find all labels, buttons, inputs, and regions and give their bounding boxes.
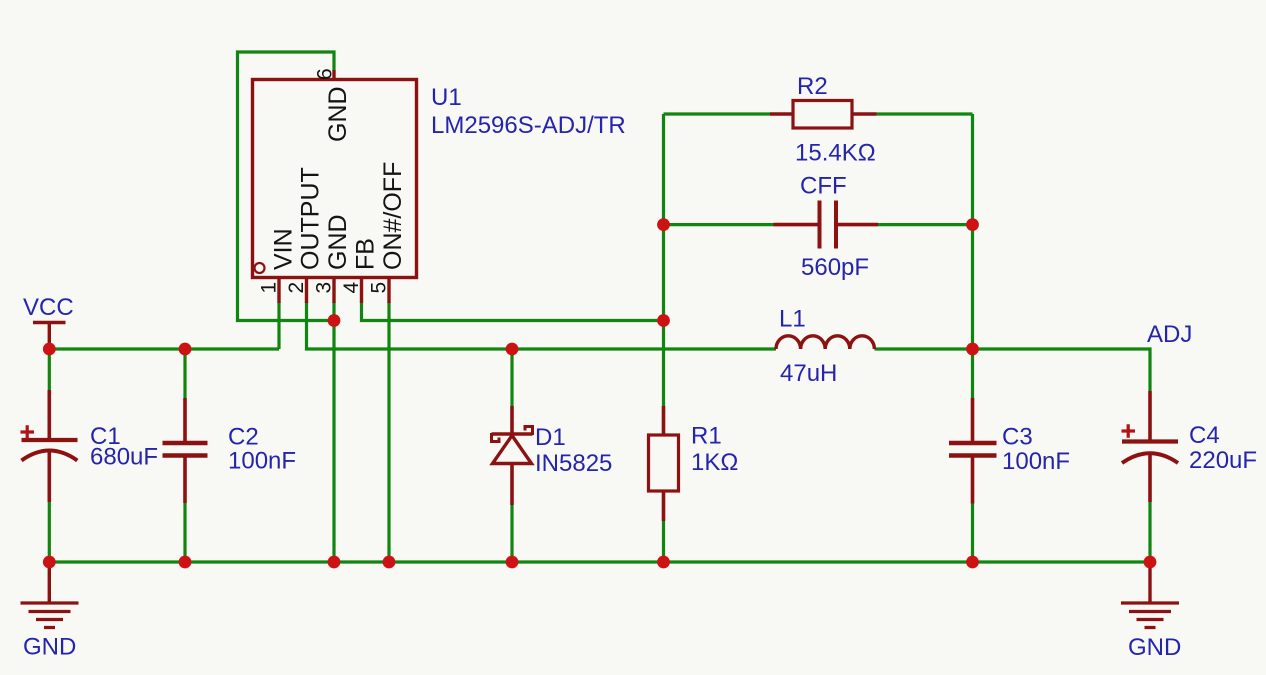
- node gnd rail 3: [328, 556, 341, 569]
- node gnd rail 2: [179, 556, 192, 569]
- node VCC junction: [43, 343, 56, 356]
- pin 4 stub: [360, 278, 363, 304]
- wire FB left rail: [662, 114, 665, 406]
- svg-text:LM2596S-ADJ/TR: LM2596S-ADJ/TR: [431, 112, 626, 139]
- node gnd rail 7: [966, 556, 979, 569]
- wire C1 bottom: [48, 502, 51, 562]
- node pin3 GND junction: [328, 314, 341, 327]
- svg-text:OUTPUT: OUTPUT: [297, 167, 325, 270]
- svg-text:C2: C2: [228, 424, 259, 451]
- wire CFF left: [664, 223, 774, 226]
- pin 2 stub: [305, 278, 308, 304]
- capacitor C4 220uF polarized: [1122, 391, 1179, 502]
- svg-text:6: 6: [314, 68, 337, 80]
- wire CFF right: [878, 223, 973, 226]
- capacitor C3 100nF: [949, 398, 997, 504]
- U1 polarity circle: [255, 263, 265, 273]
- svg-text:U1: U1: [431, 84, 462, 111]
- wire C4 bottom: [1148, 502, 1151, 562]
- svg-text:VIN: VIN: [270, 228, 298, 270]
- pin 1 stub: [277, 278, 280, 304]
- node gnd rail 6: [657, 556, 670, 569]
- wire C2 top: [183, 349, 186, 398]
- svg-text:C4: C4: [1189, 422, 1220, 449]
- svg-text:CFF: CFF: [800, 173, 847, 200]
- node gnd rail 1: [43, 556, 56, 569]
- wire C2 bottom: [183, 503, 186, 562]
- op-amp U1 LM2596S-ADJ/TR body: [253, 80, 417, 278]
- wire R1 bottom: [662, 521, 665, 562]
- capacitor CFF 560pF: [774, 201, 879, 249]
- svg-text:GND: GND: [1128, 634, 1181, 661]
- svg-text:4: 4: [340, 282, 363, 294]
- node gnd rail 8: [1144, 556, 1157, 569]
- wire ground rail: [49, 560, 1150, 563]
- ground symbol right: [1121, 562, 1179, 628]
- svg-text:GND: GND: [324, 214, 352, 270]
- wire pin4 FB to node: [362, 302, 664, 321]
- svg-text:R2: R2: [797, 73, 828, 100]
- svg-text:15.4KΩ: 15.4KΩ: [795, 140, 876, 167]
- pin 3 stub: [332, 278, 335, 304]
- capacitor C1 680uF polarized: [21, 390, 78, 502]
- svg-text:47uH: 47uH: [780, 360, 837, 387]
- VCC supply symbol: [33, 323, 66, 350]
- node gnd rail 5: [506, 556, 519, 569]
- svg-text:2: 2: [285, 282, 308, 294]
- svg-text:GND: GND: [23, 634, 76, 661]
- svg-text:560pF: 560pF: [801, 254, 869, 281]
- wire pin5 ON/OFF vertical: [387, 302, 390, 562]
- wire pin3 GND vertical: [332, 302, 335, 562]
- pin 5 stub: [387, 278, 390, 304]
- svg-text:L1: L1: [779, 306, 806, 333]
- pin 6 stub: [332, 70, 335, 81]
- wire D1 bottom: [510, 505, 513, 562]
- svg-text:ON#/OFF: ON#/OFF: [379, 162, 407, 270]
- wire pin2 OUTPUT drop and rail: [307, 302, 777, 349]
- node C2 top junction: [179, 343, 192, 356]
- node FB junction: [657, 314, 670, 327]
- diode D1 IN5825 schottky: [492, 406, 533, 505]
- ground symbol left: [21, 562, 79, 628]
- wire GND loop from pin 6: [238, 52, 335, 321]
- node CFF right junction: [966, 218, 979, 231]
- svg-text:3: 3: [313, 282, 336, 294]
- svg-text:5: 5: [368, 282, 391, 294]
- svg-text:D1: D1: [535, 424, 566, 451]
- svg-text:R1: R1: [691, 423, 722, 450]
- svg-text:100nF: 100nF: [1002, 448, 1070, 475]
- resistor R1 1K: [649, 406, 679, 521]
- inductor L1 47uH: [776, 336, 874, 349]
- svg-text:VCC: VCC: [23, 294, 74, 321]
- svg-text:680uF: 680uF: [90, 444, 158, 471]
- wire D1 top: [510, 349, 513, 406]
- wire C3 bottom: [971, 504, 974, 563]
- svg-text:C3: C3: [1002, 424, 1033, 451]
- wire VCC rail: [49, 347, 279, 350]
- svg-text:1: 1: [258, 282, 281, 294]
- wire R2 right: [877, 112, 973, 115]
- capacitor C2 100nF: [163, 398, 208, 503]
- node gnd rail 4: [383, 556, 396, 569]
- svg-text:FB: FB: [352, 238, 380, 270]
- svg-text:100nF: 100nF: [228, 448, 296, 475]
- svg-text:ADJ: ADJ: [1147, 321, 1192, 348]
- svg-text:220uF: 220uF: [1189, 447, 1257, 474]
- node L1 right junction: [966, 343, 979, 356]
- node CFF left junction: [657, 218, 670, 231]
- wire R2 left: [664, 112, 771, 115]
- wire pin1 VIN drop: [277, 302, 280, 349]
- svg-text:GND: GND: [324, 86, 352, 142]
- svg-text:1KΩ: 1KΩ: [691, 449, 738, 476]
- wire right rail: [971, 114, 974, 398]
- wire C1 top: [48, 349, 51, 390]
- svg-text:IN5825: IN5825: [535, 450, 612, 477]
- resistor R2 15.4K: [770, 101, 877, 129]
- wire OUTPUT rail right to ADJ: [875, 349, 1151, 391]
- node D1 top junction: [506, 343, 519, 356]
